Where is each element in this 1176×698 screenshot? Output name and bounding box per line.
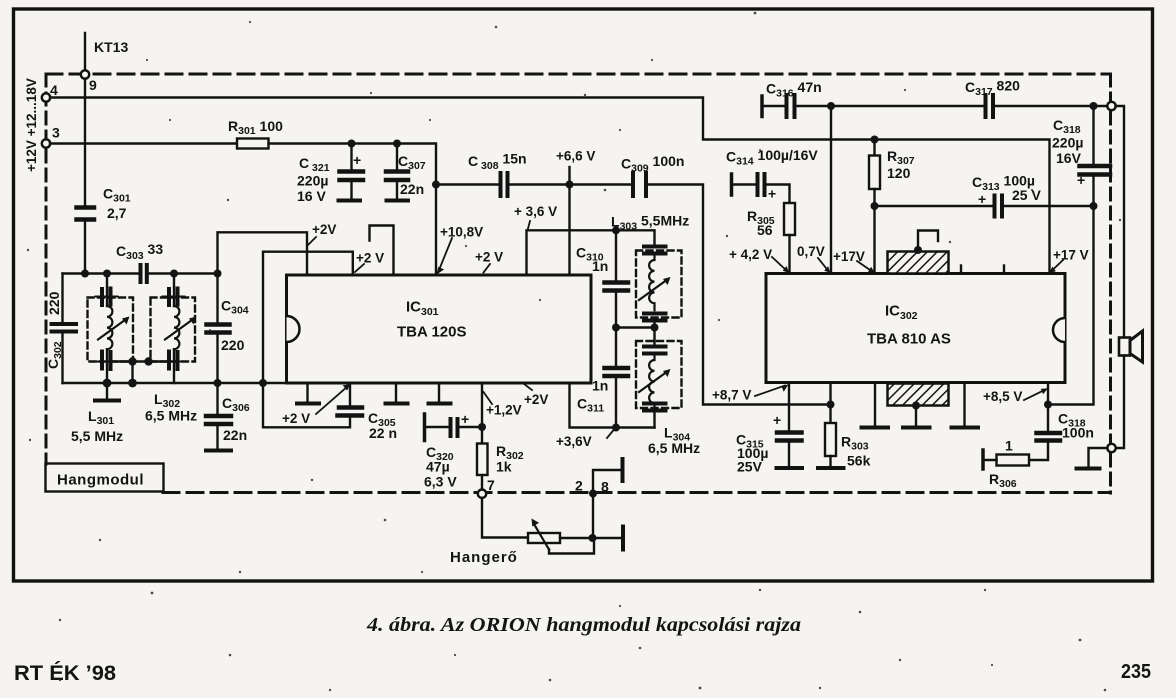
node 9 open circle on dashed border xyxy=(81,70,89,78)
capacitor C310 lower wire xyxy=(615,292,617,328)
svg-text:6,5 MHz: 6,5 MHz xyxy=(648,440,700,456)
resistor R302 xyxy=(481,427,483,444)
node 3 open circle xyxy=(42,139,50,147)
resistor R306 xyxy=(997,455,1030,466)
capacitor C313 plates xyxy=(993,196,997,217)
heatsink tab bottom (hatched) xyxy=(888,384,949,406)
L301 wire to bottom rail xyxy=(106,349,108,383)
capacitor C308 plates xyxy=(499,173,503,196)
shielded coil L302 dashed can xyxy=(151,298,196,362)
wire: tank rail to IC301 input pin (+2V) xyxy=(218,232,308,275)
wire: R307 to C313 node and IC302 +17V pin xyxy=(873,189,875,274)
IC302 bottom ground pin 1 xyxy=(874,383,876,427)
wire: R305 to IC302 +4.2V pin xyxy=(788,235,790,274)
svg-text:C304: C304 xyxy=(221,298,249,317)
annotation tick +8.7V xyxy=(755,386,785,397)
wire: tank circuit bottom rail to IC301 corner xyxy=(63,382,287,384)
C320 wire to R302 node xyxy=(458,426,482,428)
annotation arrow +10.8V xyxy=(439,238,452,270)
capacitor C306 branch xyxy=(216,383,218,414)
capacitor C321 branch wire xyxy=(350,144,352,170)
L302 top trimmer cap blob xyxy=(167,289,171,305)
inductor L301 coil xyxy=(107,306,112,349)
L303 bottom trimmer cap xyxy=(644,312,666,316)
shielded coil L304 dashed can xyxy=(636,341,682,408)
wire: +12V rail from pin 4 to right side xyxy=(50,98,1050,274)
ground of L301 xyxy=(106,383,108,399)
wire: speaker return to chassis terminal xyxy=(1116,356,1125,449)
wire: C316 node down to IC302 pin (0.7V) xyxy=(830,106,832,274)
svg-text:22n: 22n xyxy=(223,427,247,443)
capacitor C304 branch from rail xyxy=(216,274,218,323)
capacitor C302 lower wire to bottom rail xyxy=(61,333,63,383)
wire: C308 coupling line xyxy=(436,183,500,185)
svg-text:16V: 16V xyxy=(1056,150,1082,166)
capacitor C318 (220u) lower wire to C313 node xyxy=(1092,176,1094,206)
capacitor C302 plates xyxy=(52,322,77,326)
L304 top trimmer cap xyxy=(644,345,666,349)
open circle terminal on dashed border (speaker out) xyxy=(1107,102,1115,110)
annotation tick +2V C305 pin xyxy=(316,386,348,414)
svg-text:+ 4,2 V: + 4,2 V xyxy=(729,247,772,262)
wire: C309 to IC302 input net xyxy=(647,185,831,405)
L304 tuning arrow xyxy=(639,371,668,392)
svg-text:56: 56 xyxy=(757,222,773,238)
Hangmodul module dashed boundary: left edge xyxy=(45,74,48,464)
svg-text:+: + xyxy=(353,152,361,168)
svg-text:TBA 810 AS: TBA 810 AS xyxy=(867,331,951,348)
tab connection hook top xyxy=(918,231,938,251)
L303 wire to mid link xyxy=(653,322,655,328)
svg-text:120: 120 xyxy=(887,165,911,181)
Hangmodul module dashed boundary: bottom edge xyxy=(163,491,1111,494)
annotation tick +17V right xyxy=(1052,260,1063,271)
wire: +10.8V line down to IC301 pin xyxy=(435,185,437,275)
wire: C314 to R305 xyxy=(765,185,790,204)
svg-text:C301: C301 xyxy=(103,186,131,205)
svg-text:R303: R303 xyxy=(841,434,869,453)
resistor R307 from +12V rail xyxy=(873,140,875,156)
capacitor C315 plates xyxy=(777,430,802,435)
inductor L303 coil xyxy=(649,254,654,310)
chassis bar at pin 8 xyxy=(621,459,625,481)
heatsink tab top (hatched) xyxy=(888,252,949,274)
svg-text:RT ÉK ’98: RT ÉK ’98 xyxy=(14,662,116,685)
svg-text:R301 100: R301 100 xyxy=(228,118,283,137)
capacitor C307 lower wire xyxy=(396,182,398,199)
L304 wire to bottom net xyxy=(653,412,655,428)
annotation tick +4.2V xyxy=(772,257,787,271)
capacitor C318 (220u) upper wire xyxy=(1092,106,1094,164)
svg-text:R306: R306 xyxy=(989,471,1017,490)
C305 bottom return wire to feedback node xyxy=(263,383,350,427)
wire: +3.6V pin loop to tank L303 xyxy=(527,230,655,275)
open stub symbol above IC301 xyxy=(370,226,394,276)
svg-text:220: 220 xyxy=(46,291,62,315)
svg-text:1n: 1n xyxy=(592,258,608,274)
page outer border frame (decorative) xyxy=(14,9,1153,581)
capacitor C316 left terminal xyxy=(760,96,764,117)
capacitor C311 lower wire xyxy=(615,378,617,428)
IC302 top stub pin a xyxy=(960,266,962,274)
IC302 top stub pin b xyxy=(1003,266,1005,274)
wire: R301 to C321/C307/C308 node xyxy=(269,144,437,185)
capacitor C302 branch xyxy=(61,274,63,323)
svg-text:8: 8 xyxy=(601,479,609,495)
svg-text:47µ: 47µ xyxy=(426,459,450,475)
capacitor C309 plates xyxy=(631,173,635,196)
svg-text:25V: 25V xyxy=(737,459,763,475)
svg-text:C317 820: C317 820 xyxy=(965,78,1020,99)
svg-text:6,5 MHz: 6,5 MHz xyxy=(145,408,197,424)
svg-text:+10,8V: +10,8V xyxy=(440,225,483,240)
capacitor C314 plates xyxy=(756,174,760,195)
node +6.6V stub xyxy=(568,167,570,185)
resistor R303 from IC302 pin xyxy=(829,383,831,424)
svg-text:+: + xyxy=(1077,172,1085,188)
capacitor C315 wire from IC302 pin (+8.7V) xyxy=(788,383,790,431)
capacitor C314 left terminal xyxy=(730,174,734,195)
capacitor C315 lower wire xyxy=(788,442,790,467)
svg-text:C302: C302 xyxy=(45,341,64,369)
R306 left wire and terminal xyxy=(983,459,997,461)
svg-text:KT13: KT13 xyxy=(94,39,128,55)
svg-text:+: + xyxy=(773,412,781,428)
svg-text:+8,7 V: +8,7 V xyxy=(712,388,751,403)
capacitor C320 plates xyxy=(449,419,453,436)
svg-text:+2 V: +2 V xyxy=(475,250,503,265)
capacitor C310 plates xyxy=(605,280,629,285)
capacitor C316 plates xyxy=(785,95,789,117)
svg-text:+12V +12...18V: +12V +12...18V xyxy=(24,78,39,172)
wire: tank mid link xyxy=(616,326,655,328)
svg-text:Hangmodul: Hangmodul xyxy=(57,472,144,489)
L302 tuning arrow xyxy=(165,319,194,340)
svg-text:6,3 V: 6,3 V xyxy=(424,474,457,490)
wire: C316 to C317 output line xyxy=(795,105,985,107)
wire: to speaker xyxy=(1116,106,1125,338)
pin 7 open circle on dashed border xyxy=(478,490,486,498)
wire: KT13 input line down to tank rail xyxy=(84,33,86,205)
svg-text:16 V: 16 V xyxy=(297,188,326,204)
wire: +6.6V node down to IC301 top pin xyxy=(568,185,570,275)
capacitor C318 (100n) plates xyxy=(1037,431,1061,436)
capacitor C303 plates xyxy=(139,265,143,282)
svg-text:C303 33: C303 33 xyxy=(116,241,163,262)
svg-text:C306: C306 xyxy=(222,395,250,414)
L302 feed wire from rail xyxy=(173,274,175,307)
svg-text:235: 235 xyxy=(1121,661,1151,683)
annotation tick +3.6V top xyxy=(528,221,530,229)
svg-text:22 n: 22 n xyxy=(369,425,397,441)
capacitor C311 plates xyxy=(605,366,629,371)
wire: pin 2/8 node up and to ground xyxy=(593,470,623,494)
svg-text:+: + xyxy=(978,191,986,207)
capacitor C305 plates xyxy=(339,405,362,410)
ground hook inside module for speaker return xyxy=(1089,448,1108,467)
svg-text:C307: C307 xyxy=(398,153,426,172)
annotation tick 0.7V xyxy=(818,258,828,271)
L301 tuning arrow xyxy=(98,319,127,340)
capacitor C305 top wire from IC301 xyxy=(349,383,351,406)
ground bar of C315 xyxy=(777,466,803,470)
svg-text:100n: 100n xyxy=(1062,425,1094,441)
svg-text:5,5 MHz: 5,5 MHz xyxy=(71,428,123,444)
wire: pin 7 to volume pot xyxy=(482,498,528,538)
Hangmodul name box xyxy=(46,464,164,492)
node 4 open circle xyxy=(42,93,50,101)
open circle terminal on dashed border (speaker gnd) xyxy=(1107,444,1115,452)
wire: pin2 node down to pot junction xyxy=(592,494,594,539)
scan speckle noise (decorative) xyxy=(151,592,154,595)
svg-text:+: + xyxy=(768,186,776,202)
wire: pot to pin2 node xyxy=(560,537,623,539)
svg-text:TBA 120S: TBA 120S xyxy=(397,324,466,341)
wire: tank circuit top rail xyxy=(63,272,141,274)
capacitor C318 (220u) plates xyxy=(1080,164,1111,169)
wire: C308 to +6.6V node to C309 xyxy=(508,183,632,185)
capacitor C307 branch wire xyxy=(396,144,398,170)
wire: IC302 +8.5V pin to output node xyxy=(1047,383,1049,432)
shielded coil L303 dashed can xyxy=(636,251,682,318)
capacitor C306 plates xyxy=(206,414,231,419)
svg-text:220µ: 220µ xyxy=(1052,135,1083,151)
capacitor C304 lower wire xyxy=(216,334,218,383)
annotation tick +3.6V bottom xyxy=(607,430,614,439)
L303 top trimmer cap xyxy=(644,245,666,249)
capacitor C321 lower wire xyxy=(350,182,352,199)
potentiometer wiper arrow xyxy=(534,524,549,550)
IC302 bottom ground pin 3 xyxy=(963,383,965,427)
capacitor C306 lower wire xyxy=(216,426,218,450)
L302 bottom trimmer cap blob xyxy=(167,352,171,369)
svg-text:C314 100µ/16V: C314 100µ/16V xyxy=(726,147,818,168)
Hangmodul module dashed boundary: right edge xyxy=(1109,74,1112,493)
amplifier IC302 TBA810AS body xyxy=(766,274,1065,383)
potentiometer Hangero body xyxy=(528,533,560,543)
inductor L302 coil xyxy=(174,306,179,349)
svg-text:1n: 1n xyxy=(592,378,608,394)
capacitor C311 branch xyxy=(615,328,617,367)
svg-text:+17 V: +17 V xyxy=(1053,248,1089,263)
capacitor C320 left terminal xyxy=(423,414,427,441)
wire: IC301 +1.2V pin down to node xyxy=(481,383,483,427)
wire: C313 line xyxy=(875,205,995,207)
annotation tick +2V input pin xyxy=(308,237,316,245)
svg-text:4. ábra. Az ORION hangmodul ka: 4. ábra. Az ORION hangmodul kapcsolási r… xyxy=(366,614,801,636)
op IC301 TBA120S body xyxy=(287,275,592,383)
resistor R301 xyxy=(237,139,269,149)
svg-text:+2V: +2V xyxy=(312,222,336,237)
L301 top trimmer cap blob xyxy=(100,289,104,305)
wire: feedback loop around IC301 left xyxy=(263,252,353,383)
Hangmodul module dashed boundary: top edge xyxy=(46,73,1111,76)
svg-text:C 321: C 321 xyxy=(299,155,330,174)
capacitor C307 plates xyxy=(386,169,408,174)
svg-text:Hangerő: Hangerő xyxy=(450,549,518,566)
IC301 ground pin 3 xyxy=(438,383,440,402)
resistor R305 xyxy=(784,203,795,235)
svg-text:2,7: 2,7 xyxy=(107,205,127,221)
capacitor C318 (100n) lower wire to R306 xyxy=(1029,442,1048,460)
wire: C317 to output node and speaker terminal xyxy=(994,105,1108,107)
chassis bar at pot output xyxy=(621,527,625,550)
L304 feed wire from mid link xyxy=(653,328,655,345)
speaker xyxy=(1119,338,1130,356)
svg-text:C318: C318 xyxy=(1053,117,1081,136)
svg-text:+2 V: +2 V xyxy=(356,251,384,266)
svg-text:0,7V: 0,7V xyxy=(797,244,825,259)
annotation tick +2V loop pin xyxy=(355,264,364,272)
wiper return wire xyxy=(549,539,594,554)
svg-text:56k: 56k xyxy=(847,453,871,469)
capacitor C321 plates (electrolytic) xyxy=(340,169,364,174)
IC302 bottom ground pin 2 through tab xyxy=(915,406,917,427)
svg-text:+8,5 V: +8,5 V xyxy=(983,389,1022,404)
svg-text:C309 100n: C309 100n xyxy=(621,153,684,175)
inductor L304 coil xyxy=(649,354,654,410)
svg-text:220µ: 220µ xyxy=(297,173,328,189)
svg-text:+17V: +17V xyxy=(833,249,865,264)
IC301 ground pin 2 xyxy=(395,383,397,402)
svg-text:220: 220 xyxy=(221,337,245,353)
svg-text:25 V: 25 V xyxy=(1012,187,1041,203)
svg-text:C311: C311 xyxy=(577,396,604,415)
wire: C313 to output node xyxy=(1003,205,1094,207)
annotation tick +2V bottom right xyxy=(524,384,532,390)
capacitor C304 plates xyxy=(207,322,230,327)
svg-text:22n: 22n xyxy=(400,181,424,197)
svg-text:+ 3,6 V: + 3,6 V xyxy=(514,204,557,219)
ground bar of C307 xyxy=(387,199,409,203)
annotation tick +2V pin9 xyxy=(484,264,491,273)
svg-text:+: + xyxy=(461,411,469,427)
ground bar of C321 xyxy=(339,199,361,203)
annotation tick +8.5V xyxy=(1024,390,1045,400)
ground bar of C306 xyxy=(206,449,231,453)
annotation tick +1.2V xyxy=(484,392,493,404)
svg-text:1k: 1k xyxy=(496,459,512,475)
wire: C313 node down to +8.5V output node xyxy=(1048,206,1094,405)
svg-text:+1,2V: +1,2V xyxy=(486,403,522,418)
annotation tick +17V left xyxy=(857,261,872,271)
ground bar of R303 xyxy=(818,466,844,470)
L303 tuning arrow xyxy=(639,279,668,300)
svg-text:+6,6 V: +6,6 V xyxy=(556,149,595,164)
L301 bottom trimmer cap blob xyxy=(100,352,104,369)
shielded coil L301 dashed can xyxy=(88,298,134,362)
wire: pin 3 rail to R301 xyxy=(50,142,237,144)
capacitor C317 plates xyxy=(984,95,988,117)
wire: IC301 pin to tanks bottom (+3.6V net) xyxy=(570,383,655,428)
svg-text:7: 7 xyxy=(487,477,495,493)
L301 feed wire from rail xyxy=(106,274,108,307)
svg-text:4: 4 xyxy=(50,82,58,98)
IC301 index notch xyxy=(287,316,300,342)
svg-text:2: 2 xyxy=(575,478,583,494)
svg-text:3: 3 xyxy=(52,125,60,141)
svg-text:+2V: +2V xyxy=(524,392,548,407)
capacitor C310 branch xyxy=(615,230,617,281)
L302 wire to bottom rail xyxy=(173,349,175,383)
svg-text:+3,6V: +3,6V xyxy=(556,434,592,449)
capacitor C301 plates xyxy=(77,205,95,210)
IC302 index notch xyxy=(1053,318,1065,342)
svg-text:C 308 15n: C 308 15n xyxy=(468,151,527,173)
svg-text:9: 9 xyxy=(89,77,97,93)
coupled tank link wire with junctions xyxy=(113,360,169,362)
svg-text:+2 V: +2 V xyxy=(282,411,310,426)
svg-text:L301: L301 xyxy=(88,408,114,427)
L304 bottom trimmer cap xyxy=(644,402,666,406)
svg-text:1: 1 xyxy=(1005,438,1013,454)
IC301 ground pin 1 xyxy=(306,383,308,402)
